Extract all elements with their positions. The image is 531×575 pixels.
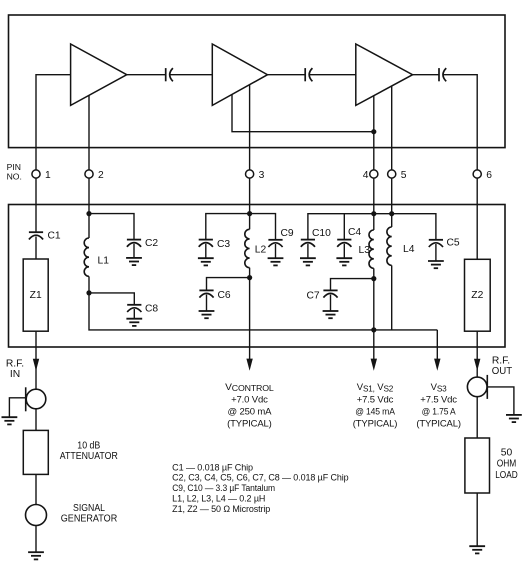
wire connector to load	[476, 397, 478, 438]
capacitor C2	[127, 240, 141, 247]
svg-text:10 dB: 10 dB	[77, 440, 100, 451]
svg-text:C7: C7	[307, 290, 320, 301]
wire A2 bottom to pin 3	[249, 85, 251, 170]
wire Vs1 Vs2 drop from L3 bottom through box edge	[373, 279, 375, 347]
wire C7 to ground	[330, 295, 332, 311]
wire connector shell to ground	[487, 387, 514, 415]
wire pin3 down to node	[249, 178, 251, 214]
RF output connector	[467, 377, 487, 397]
wire coupling cap to A3 input	[310, 74, 356, 76]
wire attenuator to signal generator	[35, 474, 37, 504]
wire C4 to ground	[343, 244, 345, 258]
wire VCONTROL with arrow	[249, 347, 251, 359]
wire pin5 down to node	[391, 178, 393, 214]
wire node to C9	[250, 214, 276, 240]
svg-text:L1, L2, L3, L4 — 0.2 µH: L1, L2, L3, L4 — 0.2 µH	[172, 494, 265, 504]
RF input connector	[26, 389, 46, 409]
capacitor C1	[29, 232, 43, 239]
pin 3	[246, 170, 254, 178]
node L1 bottom	[86, 290, 91, 295]
svg-text:(TYPICAL): (TYPICAL)	[227, 418, 272, 429]
svg-text:(TYPICAL): (TYPICAL)	[353, 418, 398, 429]
node pin3 / L2 / C3 / C9	[247, 211, 252, 216]
node pin5 / L4	[389, 211, 394, 216]
svg-text:C2, C3, C4, C5, C6, C7, C8 — 0: C2, C3, C4, C5, C6, C7, C8 — 0.018 µF Ch…	[172, 473, 349, 483]
pin 6	[473, 170, 481, 178]
svg-text:C9, C10 — 3.3 µF Tantalum: C9, C10 — 3.3 µF Tantalum	[172, 483, 275, 493]
svg-text:50: 50	[501, 447, 513, 458]
pin 4	[370, 170, 378, 178]
wire pin2 down to node	[88, 178, 90, 214]
signal generator	[26, 505, 47, 526]
ground below C6	[199, 311, 215, 318]
svg-text:6: 6	[486, 170, 492, 181]
inductor L4	[391, 214, 393, 227]
wire pin4 down to node	[373, 178, 375, 214]
wire Vs3 drop through box edge	[436, 330, 438, 347]
inductor L3	[373, 214, 375, 230]
svg-text:+7.5 Vdc: +7.5 Vdc	[357, 394, 394, 405]
ground below C10	[300, 258, 316, 265]
wire A2 bottom feedback to node at pin4 line	[232, 94, 374, 131]
capacitor C8	[127, 305, 141, 312]
wire A3 output to coupling cap	[413, 74, 439, 76]
svg-text:IN: IN	[10, 369, 20, 380]
node pin2 / L1 / C2	[86, 211, 91, 216]
wire C10 to ground	[307, 244, 309, 258]
svg-text:+7.0 Vdc: +7.0 Vdc	[231, 394, 268, 405]
svg-text:L4: L4	[403, 244, 415, 255]
ground below C7	[323, 311, 339, 318]
wire A2 output to coupling cap	[268, 74, 306, 76]
svg-text:(TYPICAL): (TYPICAL)	[416, 418, 461, 429]
wire load to ground	[476, 493, 478, 546]
wire A1 output to coupling cap	[127, 74, 166, 76]
node L3 line at ground bus	[371, 327, 376, 332]
wire C1 to Z1	[35, 237, 37, 260]
svg-text:C2: C2	[145, 238, 158, 249]
svg-text:R.F.: R.F.	[6, 358, 24, 369]
svg-text:Z1: Z1	[30, 290, 42, 301]
wire R.F. OUT with arrow	[476, 347, 478, 377]
svg-text:@ 145 mA: @ 145 mA	[355, 406, 395, 417]
node pin4 / L3	[371, 211, 376, 216]
wire connector to attenuator	[35, 409, 37, 431]
pin 5	[388, 170, 396, 178]
svg-text:C4: C4	[348, 227, 361, 238]
svg-text:C10: C10	[312, 228, 331, 239]
svg-text:L2: L2	[255, 245, 267, 256]
wire coupling cap to pin 6	[443, 75, 477, 170]
load resistor block	[465, 438, 490, 493]
wire C6 to ground	[206, 295, 208, 311]
wire ground bus from L1 bottom to Vs3 drop	[89, 293, 437, 330]
parts list	[172, 462, 349, 514]
svg-text:@ 1.75 A: @ 1.75 A	[422, 406, 457, 417]
svg-text:SIGNAL: SIGNAL	[73, 503, 105, 514]
capacitor C7	[323, 290, 337, 297]
junction feedback and pin4 line	[371, 129, 376, 134]
coupling capacitor after A3	[439, 68, 446, 81]
node L2 bottom	[247, 275, 252, 280]
svg-text:3: 3	[259, 170, 265, 181]
svg-text:PIN: PIN	[7, 162, 21, 172]
wire Vs3 with arrow	[436, 347, 438, 359]
wire C5 to ground	[435, 244, 437, 261]
capacitor C10	[301, 240, 315, 247]
ground below C3	[198, 258, 214, 265]
microstrip Z2	[465, 259, 491, 331]
wire Z2 to box edge	[476, 331, 478, 347]
svg-text:4: 4	[363, 170, 369, 181]
ground below C9	[268, 258, 284, 265]
svg-text:C1 — 0.018 µF Chip: C1 — 0.018 µF Chip	[172, 462, 253, 472]
svg-text:Z1, Z2 — 50 Ω Microstrip: Z1, Z2 — 50 Ω Microstrip	[172, 504, 270, 514]
svg-text:Z2: Z2	[471, 290, 483, 301]
microstrip Z1	[23, 259, 48, 331]
wire C2 to ground	[133, 244, 135, 258]
svg-text:OUT: OUT	[492, 366, 513, 377]
ground at RF input connector	[1, 417, 17, 424]
svg-text:C9: C9	[281, 228, 294, 239]
capacitor C4	[343, 214, 345, 240]
inductor L1	[88, 214, 90, 238]
wire pin6 to Z2	[476, 178, 478, 259]
wire Z1 to box edge	[35, 331, 37, 347]
wire pin1 to C1	[35, 178, 37, 232]
ground at RF output connector	[506, 415, 522, 422]
svg-text:LOAD: LOAD	[495, 470, 518, 481]
svg-text:C6: C6	[218, 290, 231, 301]
svg-text:VS3: VS3	[431, 382, 447, 393]
svg-text:ATTENUATOR: ATTENUATOR	[60, 451, 118, 462]
pin 1	[32, 170, 40, 178]
wire C10 net	[308, 214, 436, 240]
coupling capacitor between A2 and A3	[305, 68, 312, 81]
wire VCONTROL drop from L2 bottom through box edge	[249, 278, 251, 347]
capacitor C5	[429, 240, 443, 247]
svg-text:C5: C5	[447, 238, 460, 249]
ground below signal generator	[28, 552, 44, 559]
wire Vs1 Vs2 with arrow	[373, 347, 375, 359]
capacitor C9	[268, 240, 282, 247]
wire A3 bottom to pin 4	[373, 96, 375, 170]
svg-text:C3: C3	[217, 239, 230, 250]
ground below C2	[126, 258, 142, 265]
wire node to C2	[89, 214, 134, 240]
wire signal generator to ground	[35, 526, 37, 553]
wire node to C8	[89, 293, 134, 305]
svg-text:L1: L1	[98, 255, 110, 266]
svg-text:C8: C8	[145, 304, 158, 315]
svg-text:1: 1	[45, 170, 51, 181]
capacitor C6	[199, 290, 213, 297]
svg-text:C1: C1	[48, 230, 61, 241]
capacitor C3	[199, 240, 213, 247]
svg-text:@ 250 mA: @ 250 mA	[227, 406, 272, 417]
ground below C4	[336, 258, 352, 265]
wire connector shell to ground	[9, 398, 25, 417]
inductor L2	[249, 214, 251, 230]
amplifier A2	[212, 44, 267, 105]
svg-text:2: 2	[98, 170, 104, 181]
wire node to C6	[207, 278, 250, 291]
ground below load	[469, 546, 485, 553]
amplifier IC outline box	[9, 15, 506, 148]
wire A3 bottom to pin 5	[391, 86, 393, 170]
svg-text:R.F.: R.F.	[492, 355, 510, 366]
node L3 bottom	[371, 276, 376, 281]
wire pin1 to A1 input	[36, 75, 71, 170]
ground below C5	[428, 261, 444, 268]
matching network outline box	[9, 205, 506, 348]
wire node to C3	[206, 214, 250, 240]
wire coupling cap to A2 input	[170, 74, 212, 76]
wire C9 to ground	[275, 244, 277, 258]
wire C3 to ground	[205, 244, 207, 258]
svg-text:5: 5	[401, 170, 407, 181]
wire C8 to ground	[133, 309, 135, 319]
svg-text:VCONTROL: VCONTROL	[225, 382, 274, 393]
svg-text:GENERATOR: GENERATOR	[61, 514, 118, 525]
svg-text:VS1, VS2: VS1, VS2	[357, 382, 394, 393]
wire R.F. IN with arrow	[35, 347, 37, 389]
coupling capacitor between A1 and A2	[166, 68, 173, 81]
wire node to C7	[331, 279, 374, 291]
svg-text:L3: L3	[359, 245, 371, 256]
amplifier A1	[71, 44, 127, 105]
svg-text:OHM: OHM	[497, 459, 517, 470]
attenuator block	[23, 430, 48, 474]
wire A1 bottom to pin 2	[88, 95, 90, 170]
pin 2	[85, 170, 93, 178]
svg-text:+7.5 Vdc: +7.5 Vdc	[420, 394, 457, 405]
amplifier A3	[356, 44, 413, 105]
ground below C8	[126, 319, 142, 326]
svg-text:NO.: NO.	[7, 172, 22, 182]
